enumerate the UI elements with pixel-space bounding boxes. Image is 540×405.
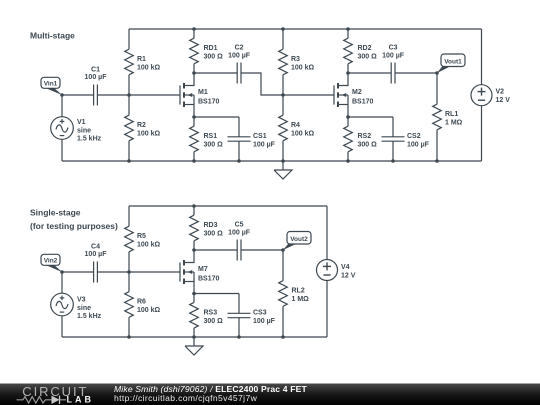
node Vin2 input	[60, 270, 64, 274]
capacitor CS3	[228, 294, 251, 338]
value label CS2 100 uF	[407, 133, 430, 148]
label Vout2	[283, 232, 311, 251]
svg-text:100 kΩ: 100 kΩ	[137, 307, 161, 314]
value label R5 100 kOhm	[137, 233, 161, 248]
resistor RD3	[190, 206, 199, 250]
svg-text:100 µF: 100 µF	[85, 74, 108, 81]
value label C3 100 uF	[382, 45, 405, 60]
resistor R2	[125, 95, 134, 161]
svg-text:R6: R6	[137, 299, 146, 306]
svg-text:C3: C3	[389, 45, 398, 52]
capacitor C3	[391, 63, 395, 84]
svg-text:Vout2: Vout2	[290, 236, 308, 243]
label Vout1	[437, 54, 465, 73]
svg-text:1 MΩ: 1 MΩ	[292, 296, 310, 303]
node bottom rail RL2	[281, 335, 285, 339]
voltage source V2	[471, 29, 492, 161]
capacitor CS2	[382, 117, 405, 161]
transistor M7 BS170	[180, 250, 194, 294]
svg-text:M7: M7	[198, 266, 208, 273]
value label CS3 100 uF	[253, 310, 276, 325]
svg-text:LAB: LAB	[67, 395, 95, 405]
svg-text:BS170: BS170	[352, 98, 374, 105]
heading Multi-stage	[30, 30, 75, 40]
wire bottom rail	[62, 160, 482, 162]
value label C4 100 uF	[85, 243, 108, 258]
svg-text:(for testing purposes): (for testing purposes)	[30, 221, 118, 231]
svg-text:Vin2: Vin2	[44, 258, 58, 265]
node bottom rail ground	[281, 159, 285, 163]
node bottom rail RS2	[346, 159, 350, 163]
svg-text:1.5 kHz: 1.5 kHz	[77, 136, 102, 143]
svg-text:100 µF: 100 µF	[228, 52, 251, 59]
svg-text:R2: R2	[137, 122, 146, 129]
svg-text:12 V: 12 V	[341, 272, 356, 279]
wire gate node to M1 gate	[129, 94, 180, 96]
node bottom rail RL1	[435, 159, 439, 163]
node top rail junction RD2	[346, 27, 350, 31]
svg-text:RD3: RD3	[204, 222, 218, 229]
svg-text:RD2: RD2	[358, 45, 372, 52]
wire bottom rail single-stage	[62, 336, 327, 338]
value label V1 sine 1.5 kHz	[77, 119, 102, 143]
wire Vin1 node to C1	[62, 94, 94, 96]
svg-text:100 µF: 100 µF	[253, 318, 276, 325]
node R5 R6 gate junction	[127, 270, 131, 274]
resistor RL2	[279, 250, 288, 337]
svg-text:RL1: RL1	[445, 111, 458, 118]
value label R4 100 kOhm	[291, 122, 315, 137]
node bottom rail RS3	[192, 335, 196, 339]
footer bar	[0, 384, 540, 405]
svg-text:RS3: RS3	[204, 310, 218, 317]
svg-text:300 Ω: 300 Ω	[204, 53, 224, 60]
resistor RS3	[190, 294, 199, 338]
wire M7 source to CS3	[194, 293, 239, 295]
wire drain M2 to C3	[348, 72, 391, 74]
value label R1 100 kOhm	[137, 56, 161, 71]
node bottom rail R6	[127, 335, 131, 339]
capacitor CS1	[228, 117, 251, 161]
svg-text:C5: C5	[235, 222, 244, 229]
value label RD3 300 Ohm	[204, 222, 224, 237]
node bottom rail CS1	[237, 159, 241, 163]
svg-text:C4: C4	[91, 243, 100, 250]
svg-text:Single-stage: Single-stage	[30, 207, 81, 217]
svg-text:Multi-stage: Multi-stage	[30, 30, 75, 40]
CircuitLab logo	[17, 384, 95, 405]
value label C5 100 uF	[228, 222, 251, 237]
svg-text:100 µF: 100 µF	[407, 141, 430, 148]
transistor M2 BS170	[334, 73, 348, 117]
svg-text:100 kΩ: 100 kΩ	[137, 64, 161, 71]
wire C2 to M2 gate	[241, 73, 334, 95]
node top rail junction R3	[281, 27, 285, 31]
svg-text:C1: C1	[91, 66, 100, 73]
svg-text:300 Ω: 300 Ω	[204, 141, 224, 148]
resistor RS1	[190, 117, 199, 161]
svg-text:sine: sine	[77, 305, 91, 312]
heading Single-stage	[30, 207, 118, 231]
node M7 source	[192, 292, 196, 296]
node bottom rail R2	[127, 159, 131, 163]
svg-text:R5: R5	[137, 233, 146, 240]
svg-text:100 µF: 100 µF	[85, 251, 108, 258]
wire drain M7 to C5	[194, 249, 237, 251]
node top rail junction RD1	[192, 27, 196, 31]
value label R2 100 kOhm	[137, 122, 161, 137]
label M2 BS170	[352, 89, 374, 105]
ground top circuit	[274, 161, 292, 179]
wire top rail Vdd	[129, 28, 482, 30]
footer text attribution and url	[114, 384, 307, 403]
svg-text:sine: sine	[77, 127, 91, 134]
capacitor C4	[94, 262, 98, 283]
ground single-stage	[185, 337, 203, 355]
value label C2 100 uF	[228, 45, 251, 60]
value label V2 12 V	[496, 89, 511, 104]
svg-text:R3: R3	[291, 56, 300, 63]
svg-text:M1: M1	[198, 89, 208, 96]
value label C1 100 uF	[85, 66, 108, 81]
svg-text:300 Ω: 300 Ω	[204, 318, 224, 325]
node M1 drain	[192, 71, 196, 75]
node Vout1	[435, 71, 439, 75]
svg-text:R1: R1	[137, 56, 146, 63]
value label CS1 100 uF	[253, 133, 276, 148]
wire C5 to Vout2	[241, 249, 283, 251]
svg-text:1 MΩ: 1 MΩ	[445, 119, 463, 126]
svg-text:100 kΩ: 100 kΩ	[137, 241, 161, 248]
node M2 source	[346, 115, 350, 119]
resistor R5	[125, 206, 134, 272]
label M7 BS170	[198, 266, 220, 282]
node M2 drain	[346, 71, 350, 75]
svg-text:BS170: BS170	[198, 98, 220, 105]
wire C3 to Vout1	[395, 72, 437, 74]
resistor R3	[279, 29, 288, 95]
svg-text:300 Ω: 300 Ω	[358, 141, 378, 148]
svg-text:Vin1: Vin1	[44, 81, 58, 88]
svg-text:CS3: CS3	[253, 310, 267, 317]
svg-text:BS170: BS170	[198, 275, 220, 282]
value label RL2 1 MOhm	[292, 288, 310, 303]
svg-text:V1: V1	[77, 119, 86, 126]
resistor RD1	[190, 29, 199, 73]
svg-text:12 V: 12 V	[496, 97, 511, 104]
wire C4 to gate node	[97, 271, 129, 273]
resistor R6	[125, 272, 134, 337]
resistor R4	[279, 95, 288, 161]
svg-text:RL2: RL2	[292, 288, 305, 295]
svg-text:RS1: RS1	[204, 133, 218, 140]
wire top rail single-stage	[129, 205, 327, 207]
wire M2 source to CS2	[348, 116, 393, 118]
node R3 R4 gate junction	[281, 93, 285, 97]
label Vin1	[41, 77, 62, 95]
svg-text:C2: C2	[235, 45, 244, 52]
wire Vin2 node to C4	[62, 271, 94, 273]
value label RD2 300 Ohm	[358, 45, 378, 60]
svg-text:300 Ω: 300 Ω	[358, 53, 378, 60]
svg-text:V2: V2	[496, 89, 505, 96]
svg-text:300 Ω: 300 Ω	[204, 230, 224, 237]
svg-text:V4: V4	[341, 264, 350, 271]
value label R6 100 kOhm	[137, 299, 161, 314]
value label RS2 300 Ohm	[358, 133, 378, 148]
svg-text:1.5 kHz: 1.5 kHz	[77, 313, 102, 320]
node bottom rail CS3	[237, 335, 241, 339]
svg-text:100 µF: 100 µF	[228, 229, 251, 236]
value label V4 12 V	[341, 264, 356, 279]
svg-text:M2: M2	[352, 89, 362, 96]
svg-text:CS1: CS1	[253, 133, 267, 140]
transistor M1 BS170	[180, 73, 194, 117]
value label RL1 1 MOhm	[445, 111, 463, 126]
svg-text:Vout1: Vout1	[444, 59, 462, 66]
resistor RL1	[433, 73, 442, 161]
voltage source V3	[51, 272, 74, 337]
capacitor C1	[94, 85, 98, 106]
node Vout2	[281, 248, 285, 252]
label Vin2	[41, 254, 62, 272]
value label RS3 300 Ohm	[204, 310, 224, 325]
svg-text:CS2: CS2	[407, 133, 421, 140]
node bottom rail RS1	[192, 159, 196, 163]
voltage source V4	[317, 206, 338, 337]
resistor RD2	[344, 29, 353, 73]
svg-text:RD1: RD1	[204, 45, 218, 52]
node R1 R2 gate junction	[127, 93, 131, 97]
node bottom rail CS2	[391, 159, 395, 163]
value label RD1 300 Ohm	[204, 45, 224, 60]
node top rail junction RD3	[192, 204, 196, 208]
wire gate node to M7 gate	[129, 271, 180, 273]
wire C1 to gate node	[97, 94, 129, 96]
svg-text:100 kΩ: 100 kΩ	[291, 130, 315, 137]
wire drain M1 to C2	[194, 72, 237, 74]
node M1 source	[192, 115, 196, 119]
capacitor C2	[237, 63, 241, 84]
value label RS1 300 Ohm	[204, 133, 224, 148]
node M7 drain	[192, 248, 196, 252]
svg-text:RS2: RS2	[358, 133, 372, 140]
svg-text:100 µF: 100 µF	[382, 52, 405, 59]
svg-text:100 kΩ: 100 kΩ	[137, 130, 161, 137]
wire M1 source to CS1	[194, 116, 239, 118]
value label R3 100 kOhm	[291, 56, 315, 71]
svg-text:http://circuitlab.com/cjqfn5v4: http://circuitlab.com/cjqfn5v457j7w	[114, 393, 258, 403]
label M1 BS170	[198, 89, 220, 105]
voltage source V1	[51, 95, 74, 161]
svg-text:100 kΩ: 100 kΩ	[291, 64, 315, 71]
node Vin1 input	[60, 93, 64, 97]
svg-text:R4: R4	[291, 122, 300, 129]
value label V3 sine 1.5 kHz	[77, 297, 102, 321]
resistor R1	[125, 29, 134, 95]
capacitor C5	[237, 240, 241, 261]
resistor RS2	[344, 117, 353, 161]
svg-text:100 µF: 100 µF	[253, 141, 276, 148]
svg-text:V3: V3	[77, 297, 86, 304]
